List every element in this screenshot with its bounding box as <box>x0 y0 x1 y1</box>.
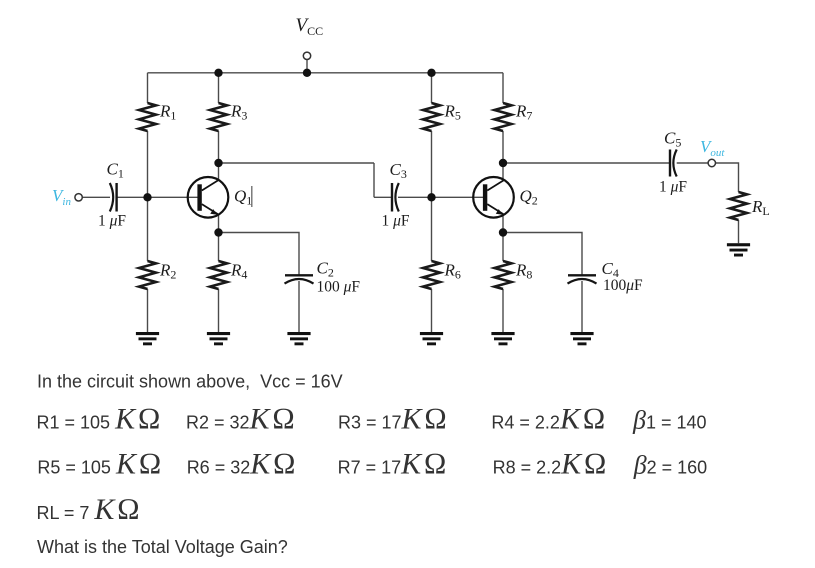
svg-text:β1 = 140: β1 = 140 <box>632 406 707 435</box>
wire C5 to Vout terminal <box>677 162 709 164</box>
resistor R4 <box>210 261 227 289</box>
svg-text:R4: R4 <box>230 261 247 282</box>
capacitor C3 <box>392 183 399 212</box>
wire C1 to Q1 base <box>117 196 198 198</box>
caret after Q1 <box>251 186 253 207</box>
wire emitter node 2 to C4 <box>503 233 582 276</box>
resistor R1 <box>139 103 156 131</box>
resistor R5 <box>423 103 440 131</box>
wire interstage vertical drop <box>373 163 375 197</box>
resistor R8 <box>495 261 512 289</box>
svg-text:C2: C2 <box>317 259 334 280</box>
svg-text:R4 = 2.2KΩ: R4 = 2.2KΩ <box>491 403 608 436</box>
svg-text:C5: C5 <box>664 129 681 150</box>
wire Vout terminal to RL <box>715 163 738 192</box>
node Q2 collector junction <box>499 159 507 167</box>
ground under R4 <box>207 332 230 345</box>
svg-text:R1 = 105 KΩ: R1 = 105 KΩ <box>37 403 164 436</box>
capacitor C5 <box>670 150 677 177</box>
svg-text:R7: R7 <box>515 102 532 123</box>
node Q1 emitter junction <box>214 228 222 236</box>
svg-text:Vin: Vin <box>52 186 71 208</box>
resistor RL <box>730 192 747 220</box>
svg-text:C3: C3 <box>390 160 407 181</box>
wire R7 to Q2 collector <box>502 131 504 180</box>
wire R1 to base node <box>147 131 149 197</box>
svg-text:C1: C1 <box>107 160 124 181</box>
ground under R6 <box>420 332 443 345</box>
wire C3 to Q2 base <box>398 196 483 198</box>
wire emitter node to R4 <box>218 233 220 262</box>
resistor R6 <box>423 261 440 289</box>
svg-text:R3: R3 <box>230 102 247 123</box>
svg-text:R2 = 32KΩ: R2 = 32KΩ <box>186 403 298 436</box>
wire R5 to base node 2 <box>431 131 433 197</box>
resistor R3 <box>210 103 227 131</box>
ground under RL <box>727 243 750 256</box>
svg-text:R6: R6 <box>444 261 461 282</box>
capacitor C4 <box>568 275 597 283</box>
capacitor C1 <box>110 183 117 212</box>
resistor R2 <box>139 261 156 289</box>
svg-text:R2: R2 <box>159 261 176 282</box>
wire Q1 emitter to emitter node <box>218 215 220 233</box>
node rail-R3 junction <box>214 69 222 77</box>
wire base node to R2 <box>147 197 149 261</box>
transistor Q2 <box>473 177 514 218</box>
wire C4 to ground <box>581 281 583 332</box>
node Q2 base junction <box>427 193 435 201</box>
terminal Vcc <box>303 52 310 59</box>
wire C2 to ground <box>298 281 300 332</box>
wire R3 to Q1 collector <box>218 131 220 180</box>
ground under C2 <box>287 332 310 345</box>
svg-text:R7 = 17KΩ: R7 = 17KΩ <box>338 448 450 481</box>
wire Q2 emitter to emitter node 2 <box>502 215 504 233</box>
svg-text:100μF: 100μF <box>603 277 643 294</box>
wire RL to ground <box>738 220 740 243</box>
svg-text:R8: R8 <box>515 261 532 282</box>
wire rail to R5 <box>431 73 433 103</box>
svg-text:R5 = 105 KΩ: R5 = 105 KΩ <box>37 448 164 481</box>
svg-text:R1: R1 <box>159 102 176 123</box>
svg-text:RL: RL <box>751 197 770 218</box>
wire R4 to ground <box>218 289 220 332</box>
svg-text:In the circuit shown above, V: In the circuit shown above, Vcc = 16V <box>37 372 343 392</box>
svg-text:R8 = 2.2KΩ: R8 = 2.2KΩ <box>493 448 610 481</box>
node Q1 base junction <box>143 193 151 201</box>
wire rail to R7 <box>502 73 504 103</box>
wire Vin terminal to C1 <box>82 196 110 198</box>
svg-text:VCC: VCC <box>296 15 324 38</box>
wire Q2 collector to C5 <box>503 162 670 164</box>
svg-text:Vout: Vout <box>700 137 725 159</box>
svg-text:R5: R5 <box>444 102 461 123</box>
wire R8 to ground <box>502 289 504 332</box>
wire emitter node to C2 <box>219 233 300 276</box>
wire top supply rail <box>148 72 504 74</box>
svg-text:R3 = 17KΩ: R3 = 17KΩ <box>338 403 450 436</box>
wire into C3 <box>374 196 392 198</box>
resistor R7 <box>495 103 512 131</box>
wire R2 to ground <box>147 289 149 332</box>
ground under C4 <box>570 332 593 345</box>
ground under R8 <box>491 332 514 345</box>
wire rail to R3 <box>218 73 220 103</box>
wire R6 to ground <box>431 289 433 332</box>
svg-text:1 μF: 1 μF <box>659 179 687 196</box>
svg-text:100 μF: 100 μF <box>317 279 361 296</box>
transistor Q1 <box>188 177 229 218</box>
capacitor C2 <box>285 275 314 283</box>
node Q1 collector junction <box>214 159 222 167</box>
ground under R2 <box>136 332 159 345</box>
svg-text:RL = 7 KΩ: RL = 7 KΩ <box>37 493 143 526</box>
svg-text:Q1: Q1 <box>234 187 252 208</box>
wire interstage horizontal from Q1 collector <box>219 162 375 164</box>
wire Vcc stem <box>306 60 308 73</box>
terminal Vout <box>708 159 715 166</box>
node Q2 emitter junction <box>499 228 507 236</box>
wire rail to R1 <box>147 73 149 103</box>
svg-text:R6 = 32KΩ: R6 = 32KΩ <box>187 448 299 481</box>
wire emitter node 2 to R8 <box>502 233 504 262</box>
svg-text:β2 = 160: β2 = 160 <box>633 451 708 480</box>
svg-text:1 μF: 1 μF <box>98 213 126 230</box>
terminal Vin <box>75 194 82 201</box>
node rail-R5 junction <box>427 69 435 77</box>
svg-text:Q2: Q2 <box>520 187 538 208</box>
node rail-Vcc junction <box>303 69 311 77</box>
svg-text:1 μF: 1 μF <box>382 213 410 230</box>
wire base node 2 to R6 <box>431 197 433 261</box>
svg-text:What is the Total Voltage Gain: What is the Total Voltage Gain? <box>37 537 288 557</box>
